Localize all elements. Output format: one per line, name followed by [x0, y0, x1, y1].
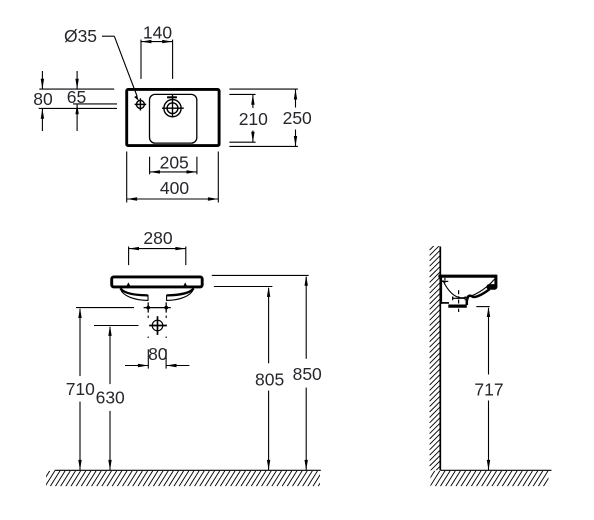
dim 710 line [79, 309, 81, 376]
side profile bottom-left edge [441, 302, 449, 304]
top edge extension line [39, 88, 114, 90]
front view: rim slab [112, 277, 203, 287]
svg-text:400: 400 [160, 178, 189, 198]
dim 80 line left [125, 365, 148, 367]
svg-text:250: 250 [283, 108, 312, 128]
svg-text:210: 210 [239, 109, 268, 129]
fixing points axis line [144, 307, 171, 309]
side profile rim top [438, 275, 496, 278]
fixing mark right (280) [184, 282, 187, 285]
svg-text:205: 205 [160, 152, 189, 172]
extension line rim top (850) [212, 274, 309, 276]
bowl silhouette left [120, 288, 147, 295]
bowl outer line right [167, 290, 194, 301]
leader line O35 [102, 35, 114, 37]
hole centre extension line (65) [73, 103, 117, 105]
dim 140 extension lines [140, 40, 142, 79]
dim 140 line [141, 41, 173, 43]
faucet centerlines [162, 107, 184, 109]
dim 850 line [305, 277, 307, 359]
small hole O35 [136, 100, 144, 108]
dim 80 line right [166, 365, 189, 367]
svg-text:65: 65 [67, 87, 86, 107]
dim 805 line [268, 288, 270, 363]
svg-text:805: 805 [255, 369, 284, 389]
side profile bottom bump [448, 305, 467, 308]
drain hole [152, 320, 163, 331]
dim 205 extension lines [149, 157, 151, 175]
extension line bowl top (210) [229, 93, 255, 95]
svg-text:850: 850 [293, 364, 322, 384]
faucet hole U [164, 100, 181, 117]
svg-text:Ø35: Ø35 [64, 26, 97, 46]
dim 630 line [109, 327, 111, 384]
faucet centre extension line (80) [39, 107, 117, 109]
svg-text:710: 710 [66, 379, 95, 399]
dim 210 line [252, 94, 254, 108]
side profile inner bowl arc [443, 279, 495, 298]
fixing point right [165, 302, 167, 312]
dim 65 line [76, 71, 78, 89]
side profile overflow lip [489, 284, 494, 290]
dim 400 extension lines [126, 152, 128, 203]
side profile right edge [494, 275, 497, 287]
fixing point left [147, 302, 149, 312]
extension line bowl bottom (210) [229, 141, 255, 143]
bowl silhouette right [167, 288, 194, 295]
svg-text:80: 80 [33, 89, 53, 109]
extension line basin top (250) [229, 88, 298, 90]
small hole centerlines [135, 103, 147, 105]
dim 205 line [150, 171, 197, 173]
extension line fixing height (710) [76, 307, 134, 309]
svg-text:280: 280 [143, 228, 172, 248]
ground line (side view) [440, 469, 551, 471]
dim 717 extension line [476, 306, 489, 308]
floor hatching (side view) [425, 471, 558, 486]
extension line basin bottom (250) [229, 145, 298, 147]
dim 280 line [129, 248, 186, 250]
fixing axes dash-dot [147, 316, 149, 340]
svg-text:630: 630 [96, 388, 125, 408]
drain axis (side) [458, 290, 460, 312]
top view: bowl [150, 94, 197, 143]
fixing mark left (280) [127, 282, 130, 285]
floor hatching (front view) [40, 471, 333, 486]
ground line (front view) [55, 469, 321, 471]
drain centerlines [149, 325, 167, 327]
svg-text:140: 140 [143, 22, 172, 42]
dim 400 line [127, 198, 219, 200]
side profile underside curve [467, 289, 490, 305]
wall line [439, 247, 441, 471]
wall hatching (side view) [430, 239, 441, 476]
side profile left edge [440, 275, 442, 304]
dim 280 extension lines [128, 247, 130, 266]
top view: basin outer rim [127, 89, 219, 145]
extension line drain height (630) [94, 325, 139, 327]
bowl outer line left [121, 290, 148, 301]
dim 250 line [295, 89, 297, 107]
dim 80 (drain offset) extension lines [147, 349, 149, 368]
dim 80 line [41, 71, 43, 89]
faucet axis marks (side) [444, 278, 446, 284]
svg-text:80: 80 [148, 344, 168, 364]
dim 717 line [488, 308, 490, 375]
extension line rim bottom (805) [214, 286, 273, 288]
svg-text:717: 717 [474, 379, 503, 399]
